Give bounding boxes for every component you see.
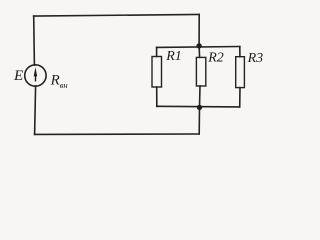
wire top rail	[157, 46, 240, 49]
wire R1 top lead	[156, 47, 158, 56]
svg-text:R1: R1	[165, 49, 182, 64]
wire top	[34, 14, 200, 16]
wire R3 bottom lead	[239, 88, 241, 107]
svg-text:R3: R3	[247, 51, 264, 66]
wire bottom rail	[157, 105, 240, 108]
wire R1 bottom lead	[156, 87, 158, 106]
svg-text:E: E	[13, 67, 24, 84]
resistor R1	[152, 57, 162, 88]
wire R3 top lead	[239, 47, 241, 57]
wire bottom drop	[198, 107, 200, 134]
wire right drop	[198, 14, 200, 45]
node junction top	[196, 43, 201, 48]
wire R2 top lead	[198, 46, 201, 58]
wire left lower	[35, 86, 36, 134]
arrow of source E	[34, 67, 38, 81]
wire left upper	[33, 16, 36, 65]
wire bottom	[35, 133, 200, 135]
resistor R2	[196, 57, 205, 86]
svg-text:R2: R2	[207, 50, 224, 65]
node junction bottom	[197, 105, 202, 110]
resistor R3	[236, 57, 245, 88]
wire R2 bottom lead	[199, 86, 202, 107]
source E U1	[25, 65, 46, 86]
